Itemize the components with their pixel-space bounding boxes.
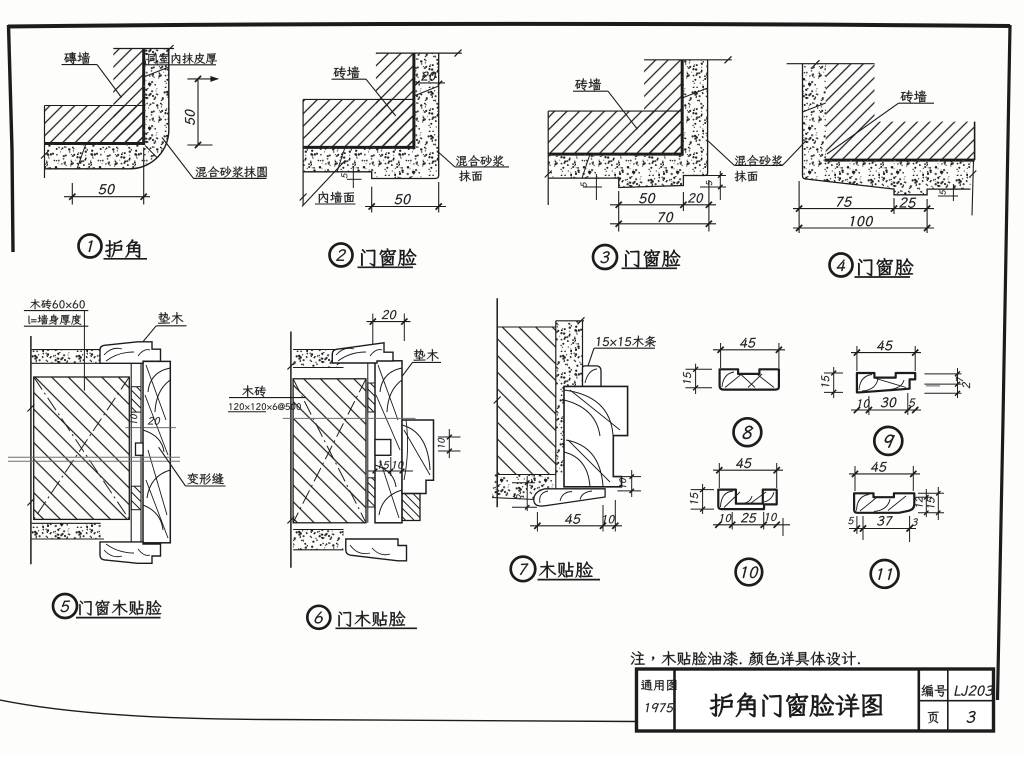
detail 3 step dimension 5 left <box>581 174 602 200</box>
detail 4 dimension 100 <box>793 216 934 231</box>
detail 6 title 门木贴脸 <box>336 611 418 629</box>
profile 9 dimension 15 <box>821 367 843 398</box>
detail 7 bottom dimensions 45 10 <box>530 500 622 532</box>
profile 10 bubble 10 <box>736 559 763 586</box>
detail 6 joint line <box>283 417 416 419</box>
detail 1 label 混合砂浆抹圆 with leader <box>162 138 267 179</box>
detail 2 wall corner thick lines <box>303 53 415 149</box>
detail 3 label 混合砂浆抹面 with leaders <box>708 141 807 182</box>
profile 10 trim section outline <box>718 490 776 510</box>
detail 2 brick hatch left block <box>303 99 414 147</box>
detail 6 door frame board <box>375 361 402 523</box>
detail 2 bubble 2 <box>330 244 353 267</box>
detail 1 bubble 1 <box>79 235 102 258</box>
profile 11 dimensions 5 37 3 bottom <box>848 516 918 542</box>
detail 6 architrave lower tail <box>402 494 420 521</box>
profile 11 dimensions 12 15 right <box>915 487 944 520</box>
detail 4 step dimension 5 <box>938 184 958 201</box>
detail 2 label 砖墙 with leader <box>332 66 396 116</box>
detail 5 bottom blocking piece <box>100 542 161 563</box>
detail 3 plaster stipple <box>548 60 707 188</box>
profile 9 dimensions 7 2 right <box>924 368 970 398</box>
detail 7 base trim piece <box>534 489 605 506</box>
detail 6 label 垫木 with leader <box>375 349 441 412</box>
detail 4 label 砖墙 with leader <box>827 90 934 154</box>
detail 4 wall bottom thick line <box>825 159 975 162</box>
title block divider lines <box>675 669 994 731</box>
title block label 页 <box>928 712 939 724</box>
detail 1 vertical dimension 50 <box>185 76 218 148</box>
title block year 1975 <box>645 703 674 712</box>
title block main title 护角门窗脸详图 <box>710 693 882 718</box>
detail 3 bubble 3 <box>593 245 617 269</box>
profile 11 trim section outline <box>854 493 914 513</box>
detail 6 top blocking piece 垫木 <box>332 343 393 363</box>
detail 7 dimension 10 right <box>617 470 641 497</box>
profile 8 dimension 45 <box>713 338 785 368</box>
title block label 通用图 <box>641 680 677 691</box>
detail 7 label 15x15木条 with leader <box>585 336 657 376</box>
detail 1 plaster joint lines <box>77 67 169 169</box>
detail 5 label 垫木 with leader <box>133 312 186 353</box>
detail 5 top blocking piece 垫木 <box>100 342 161 364</box>
detail 2 title 门窗脸 <box>358 248 417 267</box>
detail 6 plaster stipple bottom <box>293 530 343 550</box>
detail 6 bubble 6 <box>307 606 330 629</box>
detail 6 wall block with cross hatch <box>293 379 366 523</box>
detail 3 title 门窗脸 <box>622 249 681 268</box>
detail 7 wall top edge <box>497 317 584 327</box>
detail 6 architrave board with grain <box>402 420 434 494</box>
detail 6 wall face line <box>287 332 294 568</box>
detail 5 dimensions 10 20 <box>125 414 176 428</box>
detail 5 title 门窗木贴脸 <box>76 600 161 618</box>
detail 2 dimension 20 <box>415 72 445 86</box>
detail 4 plaster joint line <box>803 103 826 112</box>
detail 5 label 变形缝 with leader <box>159 447 226 486</box>
profile 11 bubble 11 <box>871 560 899 588</box>
profile 8 trim section outline <box>720 369 779 389</box>
detail 1 wall left break edge <box>41 106 48 179</box>
detail 3 wall corner thick lines <box>548 60 683 156</box>
profile 9 bubble 9 <box>874 427 902 455</box>
detail 1 wall corner thick lines <box>45 49 146 145</box>
detail 2 step dimension 5 <box>341 166 361 188</box>
detail 5 wood brick block with cross hatch <box>34 377 130 519</box>
detail 5 wall face line <box>27 336 34 564</box>
profile 10 dimensions 10 25 10 <box>713 512 790 536</box>
detail 2 wall top cut edge <box>376 50 462 57</box>
title block label 编号 <box>921 685 947 697</box>
title block drawing number LJ203 <box>954 686 994 696</box>
page border bottom edge <box>0 700 637 722</box>
profile 9 trim section outline <box>857 373 915 392</box>
detail 4 wall right cut edge <box>969 122 976 216</box>
profile 10 dimension 15 <box>690 484 714 514</box>
detail 3 dimensions 50 and 20 <box>610 180 716 232</box>
detail 3 brick hatch upper block <box>644 60 682 154</box>
detail 6 gap strip with wood blocks <box>368 361 375 523</box>
detail 1 brick hatch left block <box>45 106 144 144</box>
detail 5 gap strip with wood blocks <box>131 359 141 544</box>
detail 7 architrave board with grain <box>564 386 628 487</box>
title block page number 3 <box>966 711 976 723</box>
detail 3 wall top cut edge <box>644 56 732 63</box>
detail 4 dimensions 75 and 25 <box>793 181 934 233</box>
detail 7 plaster stipple bottom <box>492 475 556 501</box>
detail 2 wall left break edge <box>300 99 307 205</box>
detail 6 dimensions 15 10 <box>368 457 413 476</box>
detail 4 brick hatch blocks <box>826 64 975 160</box>
detail 3 label 砖墙 with leader <box>573 78 638 129</box>
detail 6 bottom blocking piece <box>346 539 407 561</box>
detail 2 bottom dimension 50 <box>365 182 446 213</box>
detail 1 plaster corner guard stipple <box>45 49 169 169</box>
detail 6 label 木砖 120X120X6@500 with leader <box>228 385 306 411</box>
detail 3 step dimension 5 right <box>700 171 726 200</box>
detail 7 title 木贴脸 <box>538 561 601 580</box>
profile 8 dimension 15 <box>683 364 712 394</box>
detail 2 brick hatch upper block <box>376 53 414 147</box>
detail 1 label 磚墙 with leader <box>62 52 122 98</box>
note text 注，木贴脸油漆．颜色详具体设计． <box>631 651 860 666</box>
detail 1 wall top cut edge <box>113 45 174 52</box>
page border left edge <box>9 25 14 252</box>
detail 5 plaster stipple top <box>32 350 104 364</box>
profile 11 dimension 45 <box>849 462 920 491</box>
detail 7 bubble 7 <box>511 557 536 582</box>
detail 2 label 内墙面 with leader <box>302 160 356 206</box>
detail 7 wall face line <box>494 298 501 507</box>
detail 1 brick hatch upper block <box>113 49 143 144</box>
title block outer box <box>637 669 994 731</box>
detail 6 plaster stipple top <box>293 350 343 368</box>
detail 7 wood strip 15x15 <box>583 366 602 387</box>
detail 4 title 门窗脸 <box>855 258 914 277</box>
detail 5 plaster stipple bottom <box>32 523 104 539</box>
detail 3 plaster joint lines <box>582 88 708 178</box>
detail 7 step dimension 5 <box>512 477 537 511</box>
detail 2 plaster stipple <box>303 53 439 178</box>
profile 8 bubble 8 <box>734 418 762 446</box>
profile 9 dimension 45 <box>851 341 921 371</box>
detail 6 dimension 20 <box>367 310 411 344</box>
detail 3 dimension 70 <box>610 212 716 227</box>
detail 1 label 同室内抹皮厚 with leader <box>143 50 217 65</box>
detail 7 plaster stipple jamb <box>556 321 583 475</box>
detail 5 label 木砖60x60 l=墙身厚度 with leader <box>24 299 88 391</box>
detail 1 bottom dimension 50 <box>64 148 150 205</box>
detail 6 dimension 10 right <box>438 429 461 458</box>
detail 2 plaster joint lines <box>337 86 439 172</box>
page border top edge <box>8 24 1010 27</box>
page border right edge <box>998 25 1011 700</box>
detail 5 bubble 5 <box>53 594 77 618</box>
detail 5 door frame board <box>136 361 171 542</box>
profile 9 dimensions 10 30 5 <box>851 393 921 415</box>
detail 4 bubble 4 <box>830 254 853 277</box>
detail 2 label 混合砂浆抹面 with leader <box>439 152 509 181</box>
detail 4 wall top cut edge <box>787 60 875 67</box>
detail 4 plaster stipple <box>803 64 971 195</box>
detail 5 deformation joint lines <box>8 457 180 461</box>
detail 7 brick hatch block <box>498 327 556 475</box>
detail 3 brick hatch left block <box>548 111 682 154</box>
profile 10 dimension 45 <box>713 458 783 488</box>
detail 3 wall left break edge <box>545 111 552 205</box>
detail 1 title 护角 <box>104 239 148 258</box>
